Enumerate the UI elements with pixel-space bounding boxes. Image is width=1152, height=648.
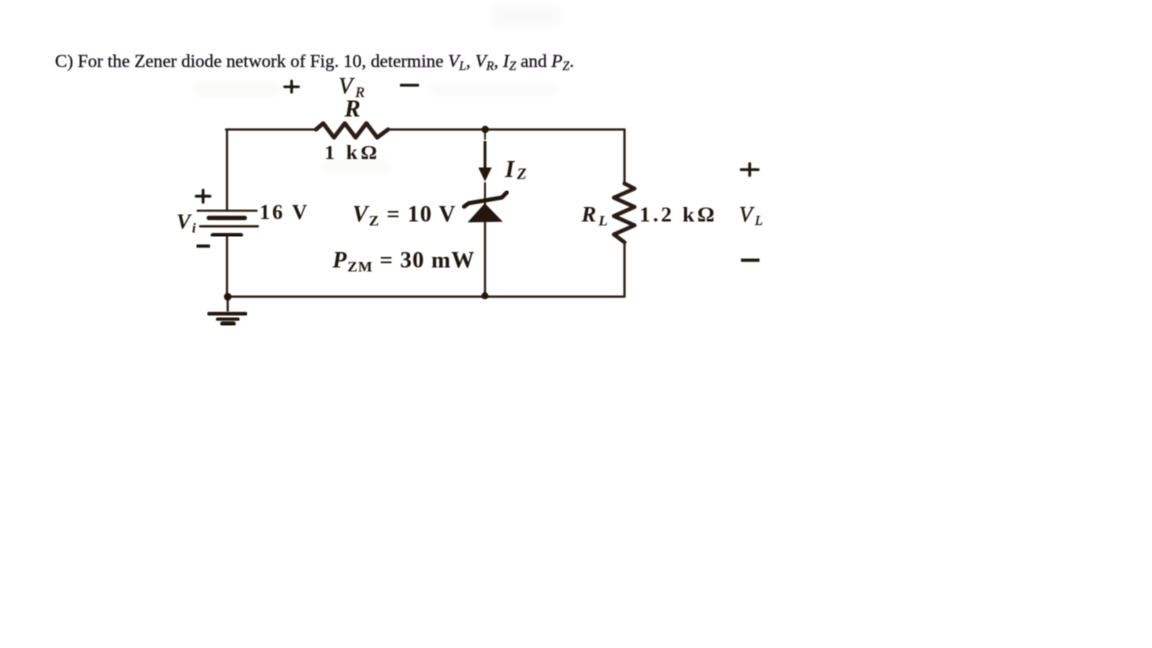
wire top left segment xyxy=(226,128,316,130)
battery plate short thick upper xyxy=(209,216,245,220)
scan smudge top center xyxy=(492,6,560,26)
svg-text:PZM = 30 mW: PZM = 30 mW xyxy=(332,248,476,276)
label + (VR plus) xyxy=(285,81,299,92)
svg-text:L: L xyxy=(598,214,608,230)
svg-text:R: R xyxy=(581,202,597,227)
scan smudge below 1 kOhm xyxy=(324,161,390,172)
svg-text:L: L xyxy=(754,214,763,229)
wire left vertical (top wire to battery) xyxy=(226,130,228,211)
label minus (VL) xyxy=(741,259,760,262)
svg-text:VZ = 10 V: VZ = 10 V xyxy=(353,201,457,229)
wire top right segment xyxy=(388,128,625,130)
resistor RL zigzag xyxy=(614,184,635,243)
svg-text:1.2 kΩ: 1.2 kΩ xyxy=(640,203,718,227)
zener diode anode triangle xyxy=(468,203,503,222)
svg-text:V: V xyxy=(339,74,356,99)
wire right vertical upper xyxy=(623,130,625,184)
svg-text:Z: Z xyxy=(516,166,527,183)
label + (VL plus) xyxy=(741,164,758,176)
wire bottom xyxy=(228,296,625,298)
wire zener bottom xyxy=(484,222,486,296)
svg-text:R: R xyxy=(344,97,361,123)
node dot bottom (zener/bottom wire junction) xyxy=(481,292,488,299)
battery plate long top xyxy=(198,210,257,212)
battery plate long lower xyxy=(200,225,258,227)
label minus (battery) xyxy=(197,245,211,248)
svg-text:1 kΩ: 1 kΩ xyxy=(325,142,381,164)
svg-text:16 V: 16 V xyxy=(260,200,310,224)
current arrow Iz head xyxy=(478,168,491,182)
node dot ground (battery/bottom wire junction) xyxy=(224,293,232,301)
svg-text:V: V xyxy=(177,210,193,234)
ground bar 2 xyxy=(218,318,239,321)
label + (battery) xyxy=(196,190,210,202)
node dot top (zener/top wire junction) xyxy=(482,126,489,133)
ground bar 1 xyxy=(209,312,246,316)
wire zener link below arrow xyxy=(484,183,486,204)
svg-text:I: I xyxy=(504,157,516,183)
battery plate short thick lower xyxy=(213,233,241,237)
scan smudge right of VR label xyxy=(430,83,556,95)
scan smudge left of VR label xyxy=(194,83,280,95)
wire zener top stub xyxy=(484,129,486,139)
svg-text:C) For the Zener diode network: C) For the Zener diode network of Fig. 1… xyxy=(55,51,574,73)
svg-text:i: i xyxy=(192,222,196,237)
wire right vertical lower xyxy=(623,242,625,296)
current arrow Iz shaft xyxy=(484,141,487,169)
label minus (VR) xyxy=(400,84,419,87)
ground bar 3 xyxy=(223,321,234,326)
ground stem xyxy=(227,297,229,312)
resistor R zigzag xyxy=(316,123,388,137)
wire battery bottom to ground node xyxy=(226,236,228,297)
svg-text:V: V xyxy=(739,202,755,227)
zener diode cathode bar (Z-bar) xyxy=(464,192,507,206)
